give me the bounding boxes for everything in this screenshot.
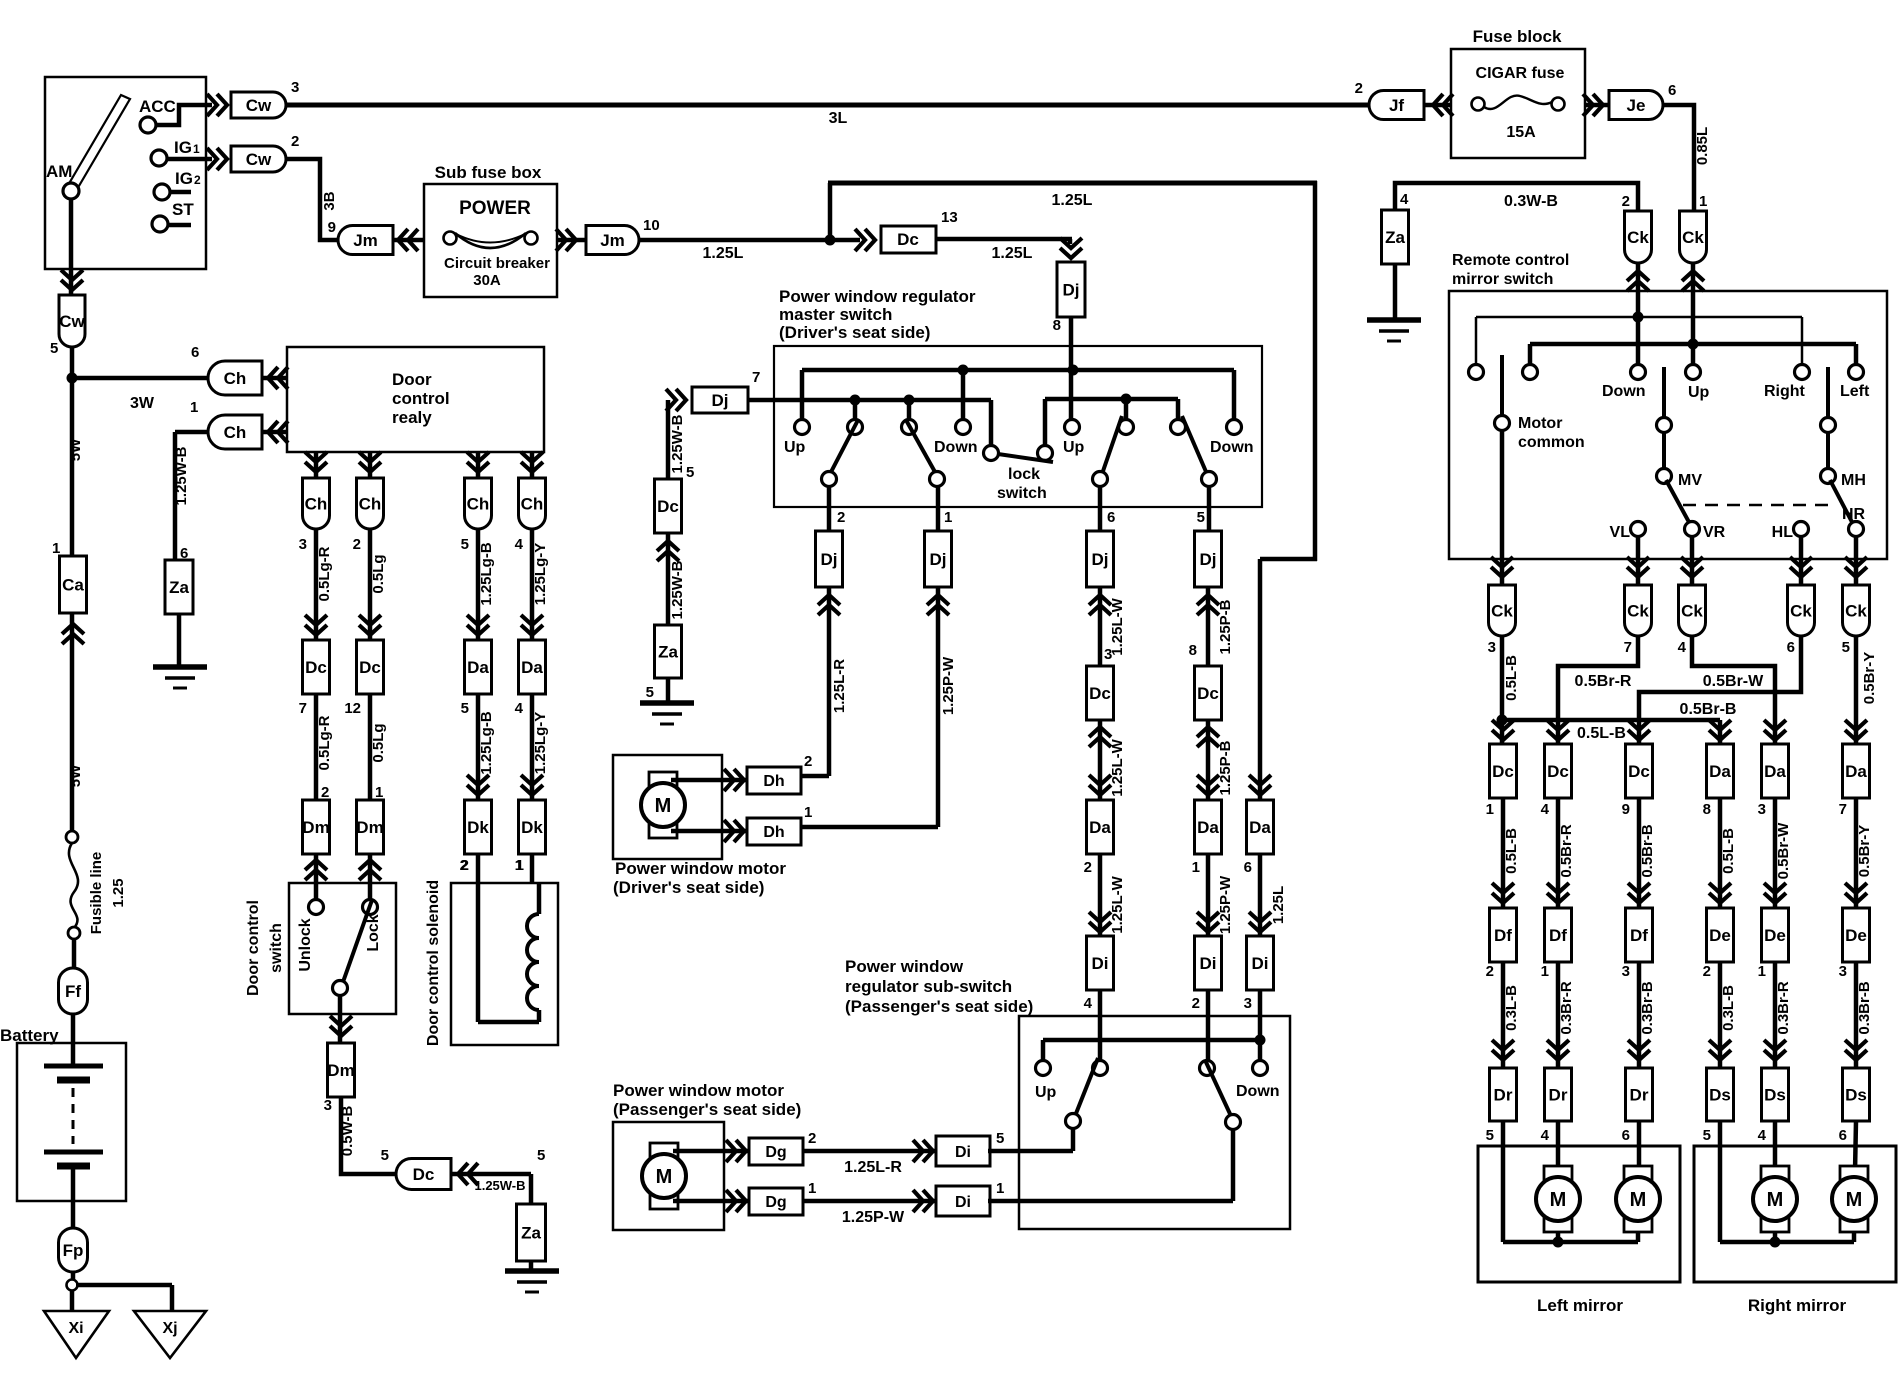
- svg-text:Ch: Ch: [305, 495, 328, 514]
- svg-text:1.25P-W: 1.25P-W: [940, 656, 957, 715]
- svg-text:Ds: Ds: [1709, 1086, 1731, 1105]
- svg-text:5: 5: [646, 684, 654, 701]
- svg-text:M: M: [1846, 1189, 1863, 1211]
- svg-text:6: 6: [1839, 1127, 1847, 1144]
- svg-text:M: M: [1767, 1189, 1784, 1211]
- svg-text:5: 5: [1703, 1127, 1711, 1144]
- svg-text:Cw: Cw: [246, 150, 272, 169]
- svg-text:1.25L-W: 1.25L-W: [1109, 597, 1126, 655]
- svg-text:1: 1: [193, 142, 200, 156]
- svg-text:0.85L: 0.85L: [1694, 127, 1711, 165]
- svg-text:Dc: Dc: [1547, 762, 1569, 781]
- svg-text:0.5Lg-R: 0.5Lg-R: [316, 546, 333, 601]
- svg-text:MV: MV: [1678, 472, 1702, 489]
- svg-text:De: De: [1845, 926, 1867, 945]
- svg-text:Power window motor: Power window motor: [613, 1081, 784, 1100]
- svg-text:Da: Da: [467, 658, 489, 677]
- svg-text:6: 6: [1622, 1127, 1630, 1144]
- svg-text:control: control: [392, 389, 450, 408]
- svg-text:1.25Lg-Y: 1.25Lg-Y: [532, 712, 549, 775]
- svg-text:0.5Lg-R: 0.5Lg-R: [316, 715, 333, 770]
- svg-text:Za: Za: [521, 1224, 541, 1243]
- svg-text:7: 7: [752, 369, 760, 386]
- svg-text:Ck: Ck: [1790, 602, 1812, 621]
- svg-text:Door control: Door control: [245, 900, 262, 996]
- svg-text:3W: 3W: [130, 395, 155, 412]
- svg-text:10: 10: [643, 217, 660, 234]
- svg-text:Up: Up: [1035, 1084, 1057, 1101]
- svg-text:Door: Door: [392, 370, 432, 389]
- svg-text:8: 8: [1703, 801, 1711, 818]
- svg-text:IG: IG: [175, 169, 193, 188]
- svg-text:Ca: Ca: [62, 576, 84, 595]
- svg-text:Dc: Dc: [1089, 684, 1111, 703]
- svg-text:2: 2: [460, 857, 468, 874]
- svg-text:5: 5: [1197, 509, 1205, 526]
- svg-text:Up: Up: [1063, 439, 1085, 456]
- svg-text:1: 1: [804, 804, 812, 821]
- svg-text:1.25L: 1.25L: [703, 245, 744, 262]
- svg-text:realy: realy: [392, 408, 432, 427]
- svg-text:1.25L: 1.25L: [1270, 886, 1287, 924]
- svg-text:Za: Za: [169, 578, 189, 597]
- svg-text:0.5Lg: 0.5Lg: [370, 723, 387, 762]
- svg-text:Motor: Motor: [1518, 415, 1562, 432]
- svg-text:Left mirror: Left mirror: [1537, 1296, 1623, 1315]
- svg-text:0.5L-B: 0.5L-B: [1503, 828, 1520, 874]
- svg-text:Fuse block: Fuse block: [1473, 27, 1562, 46]
- svg-text:Di: Di: [955, 1144, 971, 1161]
- svg-text:1: 1: [516, 857, 524, 874]
- svg-text:Remote control: Remote control: [1452, 252, 1569, 269]
- svg-text:4: 4: [515, 700, 524, 717]
- svg-text:2: 2: [194, 173, 201, 187]
- svg-text:Dc: Dc: [1628, 762, 1650, 781]
- svg-text:1.25L-W: 1.25L-W: [1109, 738, 1126, 796]
- svg-text:(Passenger's seat side): (Passenger's seat side): [613, 1100, 801, 1119]
- svg-text:1.25W-B: 1.25W-B: [173, 446, 190, 505]
- svg-text:1.25: 1.25: [110, 878, 127, 907]
- svg-text:Sub fuse box: Sub fuse box: [435, 163, 542, 182]
- svg-text:0.5Br-R: 0.5Br-R: [1575, 673, 1632, 690]
- svg-text:5: 5: [537, 1147, 545, 1164]
- svg-text:3: 3: [1839, 963, 1847, 980]
- svg-text:Da: Da: [521, 658, 543, 677]
- svg-text:4: 4: [1758, 1127, 1767, 1144]
- svg-text:AM: AM: [46, 162, 72, 181]
- svg-text:lock: lock: [1008, 466, 1040, 483]
- svg-text:Dg: Dg: [765, 1144, 786, 1161]
- svg-text:13: 13: [941, 209, 958, 226]
- svg-text:master switch: master switch: [779, 305, 892, 324]
- svg-text:1.25W-B: 1.25W-B: [669, 560, 686, 619]
- svg-text:Dm: Dm: [327, 1061, 354, 1080]
- svg-text:Ck: Ck: [1627, 602, 1649, 621]
- svg-text:Dh: Dh: [763, 824, 784, 841]
- svg-text:0.5Br-B: 0.5Br-B: [1639, 824, 1656, 878]
- svg-text:0.5L-B: 0.5L-B: [1577, 725, 1626, 742]
- svg-text:7: 7: [1624, 639, 1632, 656]
- svg-text:Da: Da: [1764, 762, 1786, 781]
- svg-text:2: 2: [837, 509, 845, 526]
- svg-text:Ch: Ch: [521, 495, 544, 514]
- svg-text:1.25P-W: 1.25P-W: [1217, 875, 1234, 934]
- svg-text:0.5Br-Y: 0.5Br-Y: [1861, 652, 1878, 705]
- svg-text:VR: VR: [1703, 524, 1726, 541]
- svg-text:M: M: [655, 795, 672, 817]
- svg-text:1: 1: [1541, 963, 1549, 980]
- svg-text:6: 6: [1244, 859, 1252, 876]
- svg-text:Ds: Ds: [1845, 1086, 1867, 1105]
- svg-text:Down: Down: [1602, 383, 1646, 400]
- svg-text:Df: Df: [1549, 926, 1567, 945]
- svg-text:1.25L-R: 1.25L-R: [831, 659, 848, 713]
- svg-text:2: 2: [1486, 963, 1494, 980]
- svg-text:Di: Di: [1200, 954, 1217, 973]
- svg-text:Dj: Dj: [821, 550, 838, 569]
- svg-text:Ff: Ff: [65, 982, 81, 1001]
- svg-text:1.25L: 1.25L: [1052, 192, 1093, 209]
- svg-text:8: 8: [1189, 642, 1197, 659]
- svg-text:Df: Df: [1630, 926, 1648, 945]
- svg-text:5: 5: [461, 536, 469, 553]
- svg-text:2: 2: [804, 753, 812, 770]
- svg-text:Dj: Dj: [1063, 281, 1080, 300]
- svg-text:POWER: POWER: [459, 198, 531, 219]
- svg-text:HR: HR: [1842, 506, 1866, 523]
- svg-text:9: 9: [328, 219, 336, 236]
- svg-text:Ck: Ck: [1682, 228, 1704, 247]
- svg-text:Di: Di: [1092, 954, 1109, 973]
- svg-text:Da: Da: [1845, 762, 1867, 781]
- svg-text:Da: Da: [1089, 818, 1111, 837]
- svg-text:Dg: Dg: [765, 1194, 786, 1211]
- svg-text:Dc: Dc: [305, 658, 327, 677]
- svg-text:Dc: Dc: [413, 1165, 435, 1184]
- svg-text:5: 5: [381, 1147, 389, 1164]
- svg-text:De: De: [1709, 926, 1731, 945]
- svg-text:1: 1: [996, 1180, 1004, 1197]
- svg-text:Dr: Dr: [1494, 1086, 1513, 1105]
- svg-text:M: M: [1630, 1189, 1647, 1211]
- svg-text:1.25Lg-Y: 1.25Lg-Y: [532, 543, 549, 606]
- svg-text:5: 5: [461, 700, 469, 717]
- svg-text:9: 9: [1622, 801, 1630, 818]
- svg-text:Za: Za: [1385, 228, 1405, 247]
- svg-text:Da: Da: [1709, 762, 1731, 781]
- svg-text:Dj: Dj: [1092, 550, 1109, 569]
- svg-text:Ch: Ch: [467, 495, 490, 514]
- svg-text:Dj: Dj: [1200, 550, 1217, 569]
- svg-text:Ch: Ch: [359, 495, 382, 514]
- svg-text:ACC: ACC: [139, 97, 176, 116]
- svg-text:2: 2: [291, 133, 299, 150]
- svg-text:0.5Br-W: 0.5Br-W: [1703, 673, 1764, 690]
- svg-text:1.25P-W: 1.25P-W: [842, 1209, 905, 1226]
- svg-text:Dc: Dc: [657, 497, 679, 516]
- svg-text:2: 2: [321, 784, 329, 801]
- svg-text:Unlock: Unlock: [297, 918, 314, 971]
- svg-text:2: 2: [808, 1130, 816, 1147]
- svg-text:5: 5: [1486, 1127, 1494, 1144]
- svg-text:1: 1: [808, 1180, 816, 1197]
- svg-text:Circuit breaker: Circuit breaker: [444, 255, 550, 272]
- svg-text:ST: ST: [172, 200, 194, 219]
- svg-text:Ck: Ck: [1627, 228, 1649, 247]
- svg-text:1: 1: [1758, 963, 1766, 980]
- svg-text:30A: 30A: [473, 272, 501, 289]
- svg-text:5: 5: [686, 464, 694, 481]
- svg-text:Ck: Ck: [1491, 602, 1513, 621]
- svg-text:HL: HL: [1772, 524, 1794, 541]
- svg-text:Ck: Ck: [1845, 602, 1867, 621]
- svg-text:1.25L-W: 1.25L-W: [1109, 875, 1126, 933]
- svg-text:Ch: Ch: [224, 423, 247, 442]
- svg-text:Jm: Jm: [353, 231, 378, 250]
- svg-text:Dh: Dh: [763, 773, 784, 790]
- svg-text:Di: Di: [1252, 954, 1269, 973]
- svg-text:7: 7: [299, 700, 307, 717]
- svg-text:(Driver's seat side): (Driver's seat side): [613, 878, 764, 897]
- svg-text:Ck: Ck: [1681, 602, 1703, 621]
- svg-text:4: 4: [1541, 801, 1550, 818]
- svg-text:VL: VL: [1610, 524, 1631, 541]
- svg-text:6: 6: [1668, 82, 1676, 99]
- svg-text:Dj: Dj: [930, 550, 947, 569]
- svg-text:Fusible line: Fusible line: [88, 852, 105, 935]
- svg-text:CIGAR fuse: CIGAR fuse: [1476, 65, 1565, 82]
- svg-text:3: 3: [1622, 963, 1630, 980]
- svg-text:6: 6: [1107, 509, 1115, 526]
- svg-text:M: M: [1550, 1189, 1567, 1211]
- svg-text:1.25L: 1.25L: [992, 245, 1033, 262]
- svg-text:8: 8: [1053, 317, 1061, 334]
- svg-text:1: 1: [1486, 801, 1494, 818]
- svg-text:Dc: Dc: [897, 230, 919, 249]
- svg-text:3B: 3B: [321, 191, 338, 210]
- svg-text:Down: Down: [934, 439, 978, 456]
- svg-text:1: 1: [375, 784, 383, 801]
- svg-text:Dc: Dc: [1197, 684, 1219, 703]
- svg-text:0.3L-B: 0.3L-B: [1503, 985, 1520, 1031]
- svg-text:0.3Br-R: 0.3Br-R: [1558, 981, 1575, 1035]
- svg-text:3: 3: [1488, 639, 1496, 656]
- svg-text:Dj: Dj: [712, 391, 729, 410]
- svg-text:15A: 15A: [1506, 124, 1536, 141]
- svg-text:1: 1: [190, 399, 198, 416]
- svg-text:3: 3: [291, 79, 299, 96]
- svg-text:5W: 5W: [67, 438, 84, 461]
- svg-text:Dc: Dc: [359, 658, 381, 677]
- svg-text:5: 5: [996, 1130, 1004, 1147]
- svg-text:1.25Lg-B: 1.25Lg-B: [478, 711, 495, 775]
- svg-text:Dk: Dk: [521, 818, 543, 837]
- svg-text:mirror switch: mirror switch: [1452, 271, 1553, 288]
- svg-text:Dm: Dm: [356, 818, 383, 837]
- svg-text:Jf: Jf: [1389, 96, 1404, 115]
- svg-text:Up: Up: [1688, 384, 1710, 401]
- svg-text:Left: Left: [1840, 383, 1870, 400]
- svg-text:0.5Lg: 0.5Lg: [370, 554, 387, 593]
- svg-text:Fp: Fp: [63, 1241, 84, 1260]
- svg-text:5: 5: [1842, 639, 1850, 656]
- svg-text:12: 12: [344, 700, 361, 717]
- svg-text:Da: Da: [1249, 818, 1271, 837]
- svg-text:1.25L-R: 1.25L-R: [844, 1159, 902, 1176]
- svg-text:3: 3: [324, 1097, 332, 1114]
- svg-text:M: M: [656, 1166, 673, 1188]
- svg-text:Jm: Jm: [600, 231, 625, 250]
- svg-text:2: 2: [1084, 859, 1092, 876]
- svg-text:0.5Br-B: 0.5Br-B: [1680, 701, 1737, 718]
- svg-text:1.25W-B: 1.25W-B: [474, 1178, 525, 1193]
- svg-text:MH: MH: [1841, 472, 1866, 489]
- svg-text:1: 1: [1699, 193, 1707, 210]
- svg-text:Xi: Xi: [68, 1320, 83, 1337]
- svg-text:Je: Je: [1627, 96, 1646, 115]
- svg-text:Df: Df: [1494, 926, 1512, 945]
- svg-text:Right: Right: [1764, 383, 1806, 400]
- svg-text:0.5Br-W: 0.5Br-W: [1775, 822, 1792, 880]
- svg-text:Right mirror: Right mirror: [1748, 1296, 1847, 1315]
- svg-text:switch: switch: [997, 485, 1047, 502]
- svg-text:1: 1: [1192, 859, 1200, 876]
- svg-text:1.25Lg-B: 1.25Lg-B: [478, 542, 495, 606]
- svg-text:2: 2: [1622, 193, 1630, 210]
- svg-text:switch: switch: [268, 923, 285, 973]
- svg-text:2: 2: [1192, 995, 1200, 1012]
- svg-text:5W: 5W: [67, 764, 84, 787]
- svg-text:2: 2: [353, 536, 361, 553]
- svg-text:1.25W-B: 1.25W-B: [669, 414, 686, 473]
- svg-text:6: 6: [1787, 639, 1795, 656]
- svg-text:0.3L-B: 0.3L-B: [1720, 985, 1737, 1031]
- svg-text:Up: Up: [784, 439, 806, 456]
- svg-text:6: 6: [191, 344, 199, 361]
- svg-text:Down: Down: [1236, 1083, 1280, 1100]
- svg-text:0.5L-B: 0.5L-B: [1503, 655, 1520, 701]
- svg-text:Dc: Dc: [1492, 762, 1514, 781]
- svg-text:regulator sub-switch: regulator sub-switch: [845, 977, 1012, 996]
- svg-text:0.5L-B: 0.5L-B: [1720, 828, 1737, 874]
- svg-text:7: 7: [1839, 801, 1847, 818]
- svg-text:Power window motor: Power window motor: [615, 859, 786, 878]
- svg-text:3: 3: [1244, 995, 1252, 1012]
- svg-text:Ds: Ds: [1764, 1086, 1786, 1105]
- svg-text:Ch: Ch: [224, 369, 247, 388]
- svg-text:Down: Down: [1210, 439, 1254, 456]
- svg-text:Lock: Lock: [365, 914, 382, 951]
- svg-text:IG: IG: [174, 138, 192, 157]
- svg-text:3: 3: [1758, 801, 1766, 818]
- svg-text:1: 1: [944, 509, 952, 526]
- svg-text:4: 4: [1678, 639, 1687, 656]
- svg-text:Cw: Cw: [59, 312, 85, 331]
- svg-text:5: 5: [50, 340, 58, 357]
- svg-text:De: De: [1764, 926, 1786, 945]
- svg-text:0.3Br-B: 0.3Br-B: [1856, 981, 1873, 1035]
- svg-text:Dr: Dr: [1630, 1086, 1649, 1105]
- svg-text:common: common: [1518, 434, 1585, 451]
- svg-text:2: 2: [1355, 80, 1363, 97]
- svg-text:Za: Za: [658, 643, 678, 662]
- svg-text:Power window regulator: Power window regulator: [779, 287, 976, 306]
- svg-text:3L: 3L: [829, 110, 848, 127]
- svg-text:Di: Di: [955, 1194, 971, 1211]
- svg-text:(Passenger's seat side): (Passenger's seat side): [845, 997, 1033, 1016]
- svg-text:Da: Da: [1197, 818, 1219, 837]
- svg-text:0.3W-B: 0.3W-B: [1504, 193, 1558, 210]
- svg-text:Dr: Dr: [1549, 1086, 1568, 1105]
- svg-text:Cw: Cw: [246, 96, 272, 115]
- svg-text:4: 4: [515, 536, 524, 553]
- svg-text:3: 3: [299, 536, 307, 553]
- svg-text:0.5Br-R: 0.5Br-R: [1558, 824, 1575, 878]
- svg-text:1.25P-B: 1.25P-B: [1217, 599, 1234, 654]
- svg-text:Dm: Dm: [302, 818, 329, 837]
- svg-text:0.3Br-B: 0.3Br-B: [1639, 981, 1656, 1035]
- svg-text:4: 4: [1541, 1127, 1550, 1144]
- svg-text:2: 2: [1703, 963, 1711, 980]
- svg-text:4: 4: [1084, 995, 1093, 1012]
- svg-text:Dk: Dk: [467, 818, 489, 837]
- svg-text:Xj: Xj: [162, 1320, 177, 1337]
- svg-text:0.3Br-R: 0.3Br-R: [1775, 981, 1792, 1035]
- svg-text:4: 4: [1400, 191, 1409, 208]
- svg-text:0.5Br-Y: 0.5Br-Y: [1856, 825, 1873, 878]
- svg-text:Door control solenoid: Door control solenoid: [425, 880, 442, 1046]
- svg-text:1: 1: [52, 540, 60, 557]
- svg-text:(Driver's seat side): (Driver's seat side): [779, 323, 930, 342]
- svg-text:Power window: Power window: [845, 957, 964, 976]
